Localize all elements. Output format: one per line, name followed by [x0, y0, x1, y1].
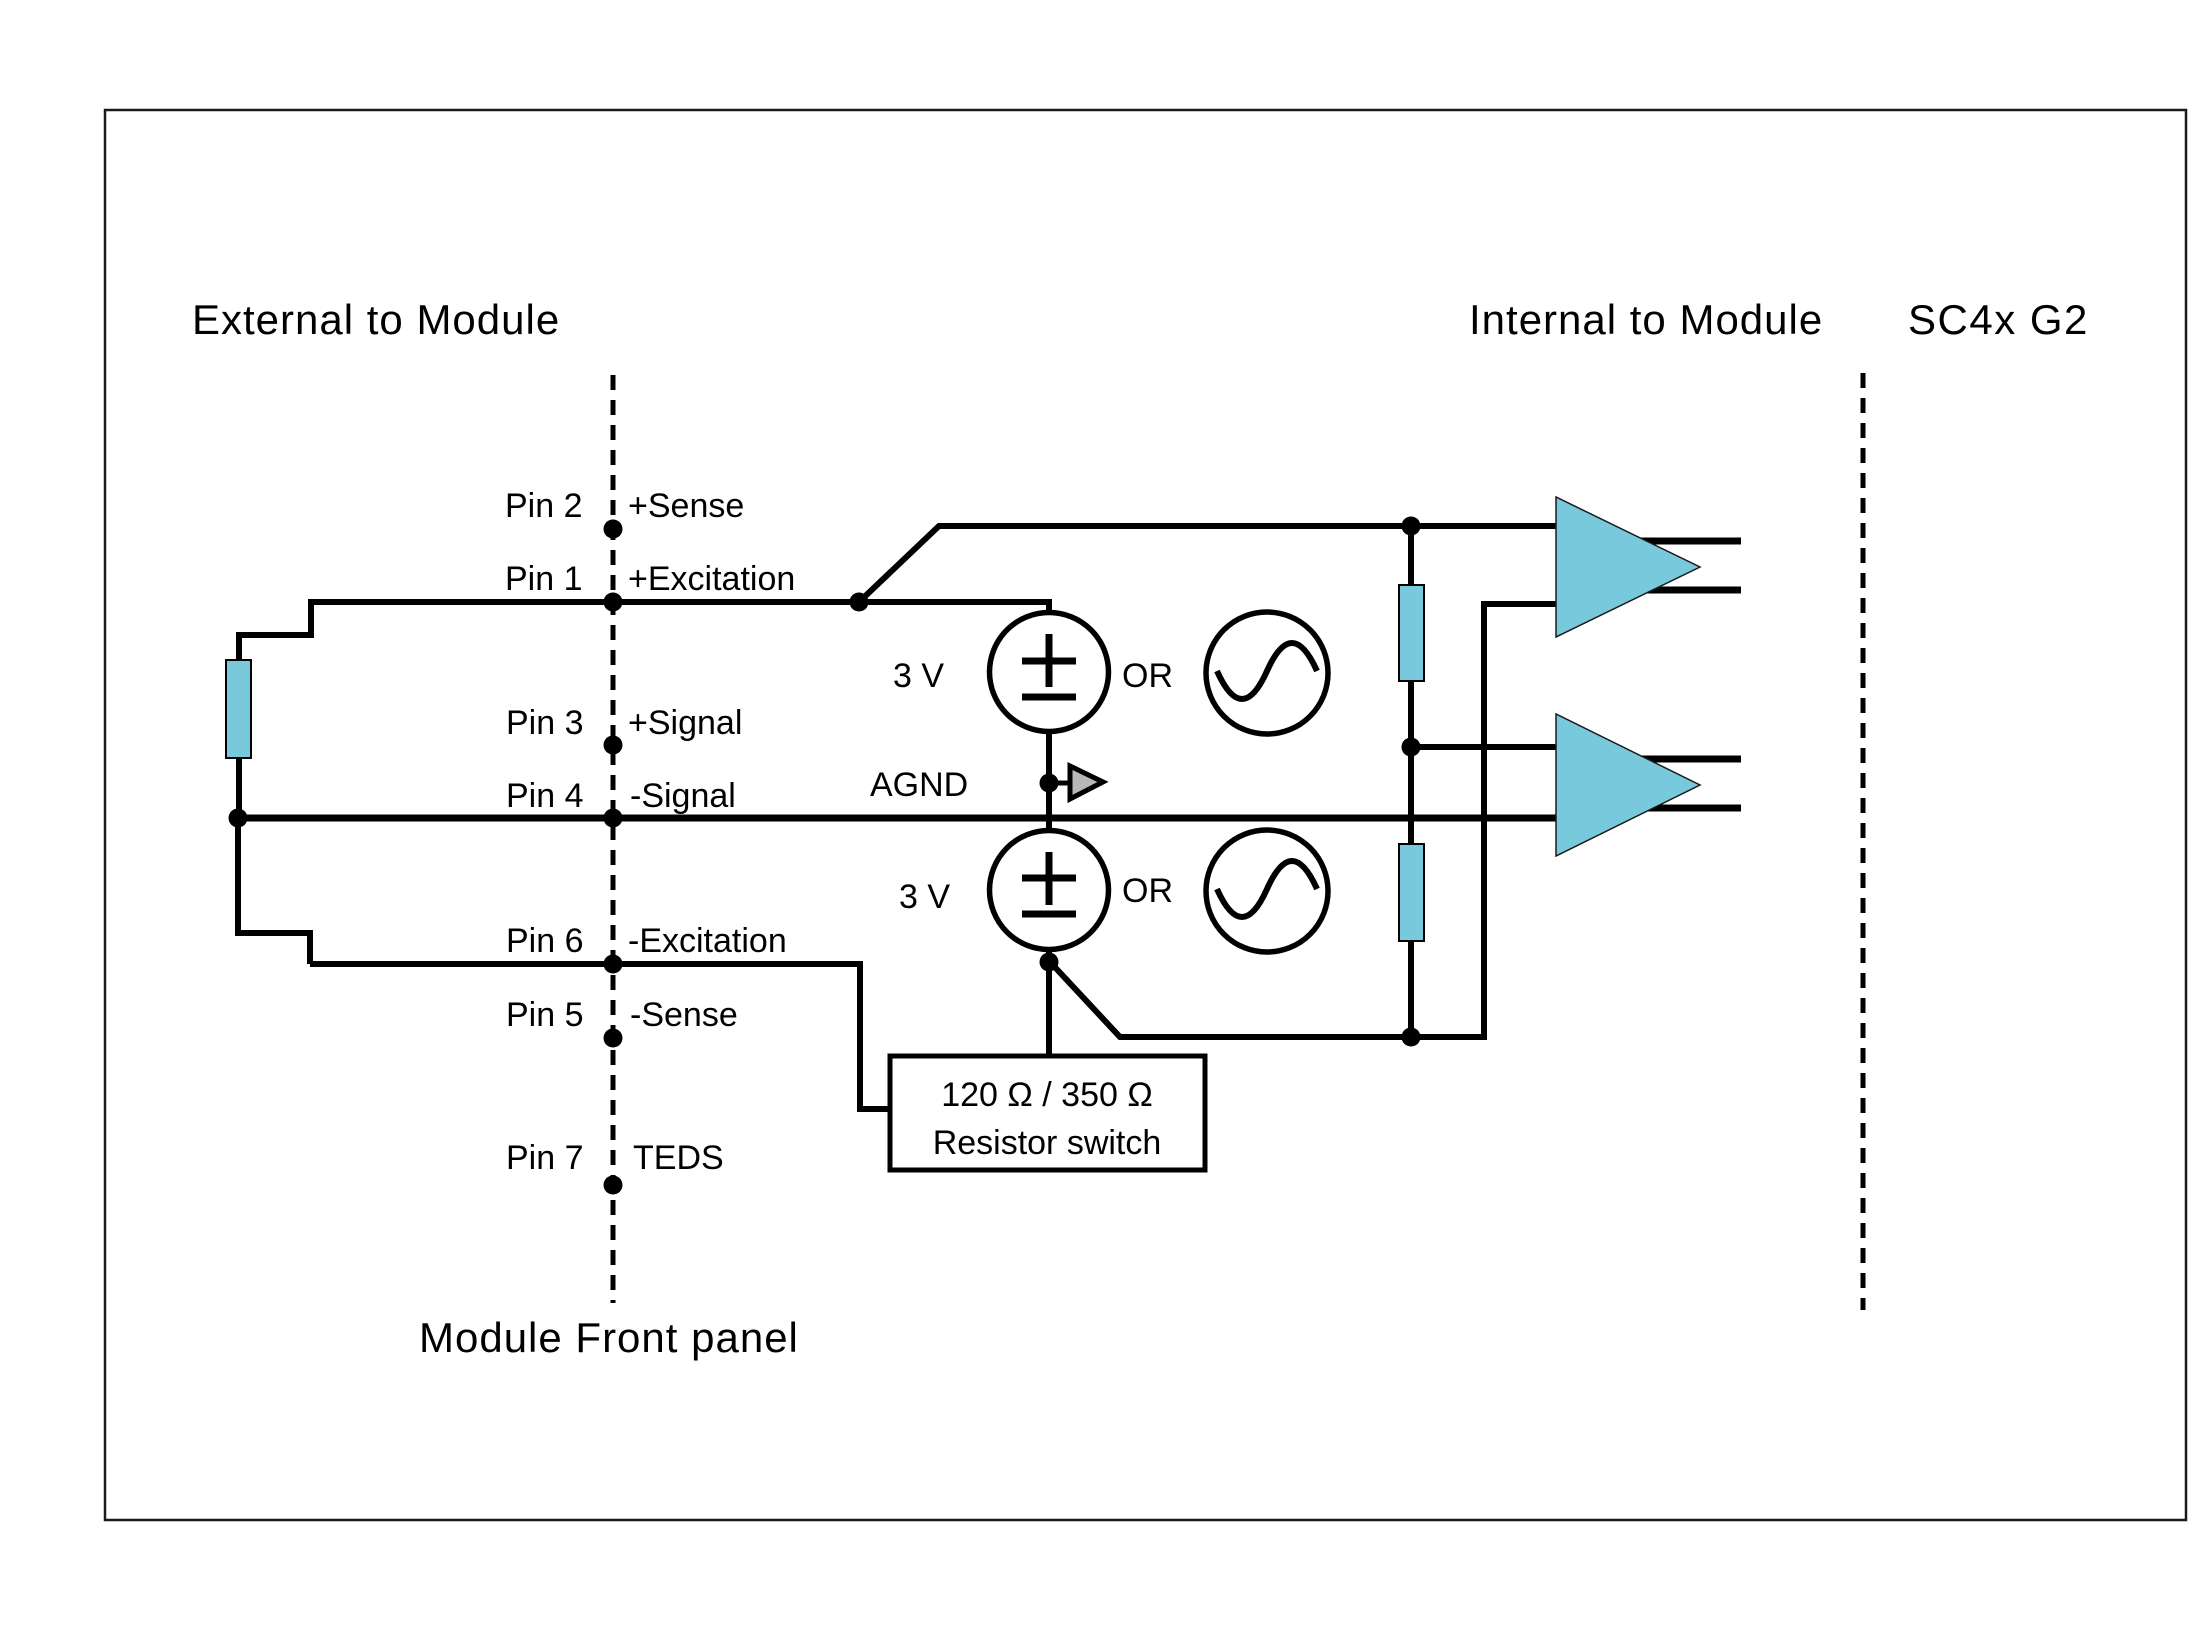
wire amplifier A2 output lower	[1620, 805, 1741, 812]
wire amplifier A1 output upper	[1620, 538, 1741, 545]
wire amplifier A1 output lower	[1620, 587, 1741, 594]
wire shunt resistor string vertical	[1408, 526, 1414, 1037]
svg-text:SC4x G2: SC4x G2	[1908, 296, 2089, 343]
amplifier A2	[1556, 714, 1700, 856]
voltage source V2 3V	[990, 831, 1109, 950]
SC4x G2 boundary (dashed)	[1861, 373, 1866, 1310]
bridge resistor (external transducer)	[226, 660, 251, 758]
wire -Signal	[238, 815, 1566, 822]
svg-text:AGND: AGND	[870, 766, 968, 804]
wire return line (V2 bottom diagonal to amplifier A1 lower input)	[1051, 604, 1566, 1037]
svg-text:-Excitation: -Excitation	[628, 922, 787, 960]
svg-text:External to Module: External to Module	[192, 296, 560, 343]
svg-text:Pin 1: Pin 1	[505, 560, 583, 598]
svg-text:Module Front panel: Module Front panel	[419, 1314, 799, 1361]
svg-text:TEDS: TEDS	[633, 1139, 724, 1177]
wire -Excitation	[310, 964, 890, 1109]
wire +Excitation (Pin 1 to bridge, left step)	[239, 602, 613, 661]
node Pin 6	[604, 955, 623, 974]
voltage source V1 3V	[990, 613, 1109, 732]
node Pin 1	[604, 593, 623, 612]
amplifier A1	[1556, 497, 1700, 637]
svg-text:Pin 7: Pin 7	[506, 1139, 584, 1177]
svg-text:-Sense: -Sense	[630, 996, 738, 1034]
AGND node arrow	[1049, 766, 1103, 799]
wire amplifier A2 upper input	[1411, 744, 1566, 750]
node Pin 4	[604, 809, 623, 828]
svg-text:Resistor switch: Resistor switch	[933, 1124, 1162, 1162]
node Pin 3	[604, 736, 623, 755]
svg-text:120 Ω / 350 Ω: 120 Ω / 350 Ω	[941, 1076, 1153, 1114]
wire AGND vertical (V1 bottom to -Signal)	[1046, 734, 1052, 828]
wire +Excitation (Pin 1 to V source)	[613, 602, 1049, 612]
wire +Sense line to amplifier A1 (with diagonal)	[859, 526, 1566, 602]
svg-text:Pin 5: Pin 5	[506, 996, 584, 1034]
node Pin 5	[604, 1029, 623, 1048]
junction shunt string / return line	[1402, 1028, 1421, 1047]
svg-text:3 V: 3 V	[899, 878, 950, 916]
svg-text:Pin 4: Pin 4	[506, 777, 584, 815]
wire bridge resistor bottom to -Signal node	[236, 758, 242, 818]
junction shunt string / A2 input	[1402, 738, 1421, 757]
node AGND	[1040, 774, 1059, 793]
junction +Excitation / +Sense	[850, 593, 869, 612]
node Pin 7	[604, 1176, 623, 1195]
svg-text:-Signal: -Signal	[630, 777, 736, 815]
AC source alternative (lower)	[1206, 830, 1328, 952]
svg-text:+Signal: +Signal	[628, 704, 742, 742]
node Pin 2	[604, 520, 623, 539]
shunt resistor R lower	[1399, 844, 1424, 941]
AC source alternative (upper)	[1206, 612, 1328, 734]
wire V2 bottom to resistor switch	[1046, 952, 1052, 1056]
junction bridge to -Signal	[229, 809, 248, 828]
svg-text:Pin 6: Pin 6	[506, 922, 584, 960]
shunt resistor R upper	[1399, 585, 1424, 681]
svg-text:OR: OR	[1122, 657, 1173, 695]
svg-text:+Excitation: +Excitation	[628, 560, 795, 598]
module front panel boundary (dashed)	[611, 375, 616, 1303]
wire -Signal node down-step to -Excitation	[238, 818, 310, 964]
svg-text:OR: OR	[1122, 872, 1173, 910]
svg-text:Internal to Module: Internal to Module	[1469, 296, 1823, 343]
junction V2 bottom	[1040, 953, 1059, 972]
wire amplifier A2 output upper	[1620, 756, 1741, 763]
svg-text:Pin 3: Pin 3	[506, 704, 584, 742]
svg-text:+Sense: +Sense	[628, 487, 744, 525]
junction +Sense line / shunt string	[1402, 517, 1421, 536]
svg-text:3 V: 3 V	[893, 657, 944, 695]
svg-text:Pin 2: Pin 2	[505, 487, 583, 525]
resistor switch box	[890, 1056, 1205, 1170]
